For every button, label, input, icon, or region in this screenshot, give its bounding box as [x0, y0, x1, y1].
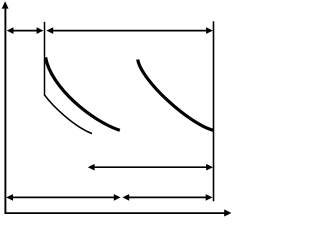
- dimension arrow B (top-right, first tick to right line): [46, 27, 213, 34]
- curve 2: left thin curve: [44, 95, 92, 134]
- dimension arrow C (middle right): [88, 164, 213, 171]
- curve 1: left thick curve: [46, 57, 120, 130]
- dimension arrow D (bottom-left): [6, 194, 120, 201]
- dimension arrow A (top-left, axis to first tick): [7, 27, 44, 34]
- tick line left (x=44.5): [44, 22, 46, 96]
- tick line right (x=213.5): [213, 21, 215, 201]
- curve 3: right thick curve: [138, 60, 214, 131]
- dimension arrow E (bottom-right): [122, 194, 212, 201]
- y-axis: [2, 1, 9, 213]
- x-axis: [5, 209, 232, 216]
